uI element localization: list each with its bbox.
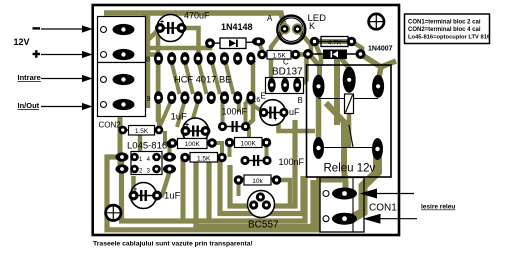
svg-text:100K: 100K (241, 141, 257, 148)
svg-text:CON2: CON2 (99, 121, 122, 130)
svg-text:9: 9 (147, 96, 151, 103)
svg-text:Releu 12v: Releu 12v (324, 163, 376, 175)
svg-text:1: 1 (253, 57, 257, 64)
svg-text:470uF: 470uF (184, 11, 210, 21)
svg-text:CON1=terminal bloc 2 cai: CON1=terminal bloc 2 cai (408, 19, 481, 25)
svg-text:E: E (261, 92, 266, 101)
svg-text:1.5K: 1.5K (135, 128, 149, 135)
svg-text:1N4148: 1N4148 (221, 22, 253, 32)
svg-text:uF: uF (289, 107, 300, 117)
svg-text:HCF 4017 BE: HCF 4017 BE (174, 75, 231, 85)
svg-text:12V: 12V (14, 37, 30, 47)
svg-text:16: 16 (253, 97, 261, 104)
svg-text:B: B (298, 96, 303, 105)
svg-text:1uF: 1uF (164, 191, 181, 202)
svg-text:1N4007: 1N4007 (368, 46, 393, 53)
svg-text:K: K (309, 21, 315, 31)
svg-text:BC557: BC557 (248, 220, 279, 231)
svg-text:+: + (133, 187, 137, 194)
svg-text:+: + (274, 116, 278, 123)
svg-text:Iesire releu: Iesire releu (421, 204, 455, 211)
svg-text:8: 8 (146, 57, 150, 64)
svg-text:CON2=terminal bloc 4 cai: CON2=terminal bloc 4 cai (408, 27, 481, 33)
svg-text:In/Out: In/Out (18, 101, 40, 110)
svg-text:A: A (267, 14, 273, 23)
svg-text:+: + (185, 122, 189, 129)
svg-text:100nF: 100nF (279, 157, 305, 167)
svg-text:Lo45-816=optocuplor LTV 816: Lo45-816=optocuplor LTV 816 (408, 35, 491, 41)
svg-text:1uF: 1uF (171, 112, 188, 123)
svg-text:CON1: CON1 (369, 203, 397, 214)
svg-text:1.5K: 1.5K (197, 156, 211, 163)
svg-text:+: + (160, 19, 164, 26)
svg-text:100K: 100K (185, 141, 201, 148)
svg-text:4.7K: 4.7K (328, 40, 342, 47)
svg-text:C: C (283, 58, 289, 67)
svg-text:Traseele cablajului sunt vazut: Traseele cablajului sunt vazute prin tra… (93, 241, 253, 248)
svg-text:Intrare: Intrare (18, 73, 41, 82)
svg-text:10k: 10k (252, 178, 263, 185)
svg-text:L045-816: L045-816 (127, 141, 167, 152)
svg-text:100nF: 100nF (222, 107, 248, 117)
svg-text:BD137: BD137 (272, 67, 303, 78)
